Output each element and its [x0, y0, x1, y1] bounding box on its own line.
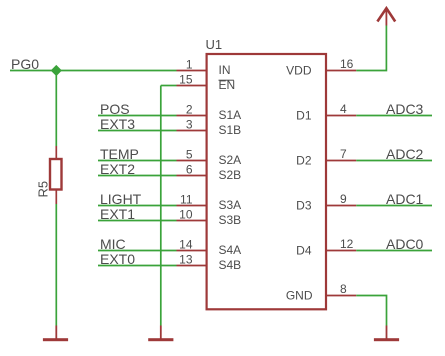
svg-text:D1: D1	[296, 109, 312, 123]
svg-text:POS: POS	[100, 101, 130, 117]
svg-text:ADC3: ADC3	[386, 101, 424, 117]
pin 9 D3 stub	[326, 205, 356, 207]
svg-text:S1A: S1A	[219, 108, 242, 122]
svg-text:6: 6	[186, 163, 193, 177]
svg-text:2: 2	[186, 103, 193, 117]
svg-text:14: 14	[179, 238, 193, 252]
svg-text:8: 8	[340, 282, 347, 296]
power VDD arrow head	[377, 8, 395, 21]
pin 6 S2B stub	[177, 175, 207, 177]
pin 7 D2 stub	[326, 160, 356, 162]
svg-text:ADC1: ADC1	[386, 191, 424, 207]
ground GND3	[386, 326, 388, 340]
wire GND pin to ground	[356, 296, 386, 326]
wire ADC1	[356, 205, 432, 207]
wire PG0 horizontal	[10, 70, 177, 72]
svg-text:MIC: MIC	[100, 236, 126, 252]
svg-text:5: 5	[186, 148, 193, 162]
svg-text:EXT2: EXT2	[100, 161, 135, 177]
wire MIC	[98, 250, 177, 252]
svg-text:U1: U1	[206, 37, 223, 52]
pin 4 D1 stub	[326, 115, 356, 117]
svg-text:11: 11	[180, 193, 193, 207]
op-amp U1 body	[207, 54, 326, 309]
svg-text:LIGHT: LIGHT	[100, 191, 142, 207]
wire EXT0	[98, 265, 177, 267]
svg-text:13: 13	[179, 253, 193, 267]
svg-text:ADC2: ADC2	[386, 146, 424, 162]
svg-text:ADC0: ADC0	[386, 236, 424, 252]
svg-text:15: 15	[179, 73, 193, 87]
wire EXT2	[98, 175, 177, 177]
svg-text:9: 9	[340, 192, 347, 206]
pin 8 GND stub	[326, 295, 356, 297]
svg-text:PG0: PG0	[11, 56, 39, 72]
pin 10 S3B stub	[177, 220, 207, 222]
ground GND2	[160, 326, 162, 340]
EN overline	[219, 79, 234, 81]
svg-text:TEMP: TEMP	[100, 146, 139, 162]
svg-text:S3B: S3B	[219, 213, 242, 227]
wire EXT1	[98, 220, 177, 222]
wire ADC3	[356, 115, 432, 117]
pin 2 S1A stub	[177, 115, 207, 117]
wire junction down to R5	[55, 71, 57, 147]
pin 12 D4 stub	[326, 250, 356, 252]
svg-text:7: 7	[340, 147, 347, 161]
pin 3 S1B stub	[177, 130, 207, 132]
resistor R5 body	[50, 159, 62, 190]
pin 11 S3A stub	[177, 205, 207, 207]
pin 13 S4B stub	[177, 265, 207, 267]
svg-text:S4A: S4A	[219, 243, 242, 257]
svg-text:10: 10	[179, 208, 193, 222]
svg-text:EXT0: EXT0	[100, 251, 135, 267]
power VDD arrow stem	[385, 9, 387, 26]
pin 15 EN stub	[177, 85, 207, 87]
svg-text:GND: GND	[286, 289, 313, 303]
svg-text:S1B: S1B	[219, 123, 242, 137]
svg-text:VDD: VDD	[286, 64, 312, 78]
svg-text:EXT3: EXT3	[100, 116, 135, 132]
wire ADC0	[356, 250, 432, 252]
svg-text:3: 3	[186, 118, 193, 132]
svg-text:1: 1	[186, 58, 193, 72]
svg-text:S2B: S2B	[219, 168, 242, 182]
wire LIGHT	[98, 205, 177, 207]
svg-text:S3A: S3A	[219, 198, 242, 212]
wire EXT3	[98, 130, 177, 132]
wire EN vertical down	[160, 86, 162, 326]
svg-text:12: 12	[340, 237, 354, 251]
svg-text:D3: D3	[296, 199, 312, 213]
pin 1 IN stub	[177, 70, 207, 72]
svg-text:16: 16	[340, 57, 354, 71]
node junction PG0/R5	[51, 66, 61, 76]
ground GND1	[55, 326, 57, 340]
svg-text:D4: D4	[296, 244, 312, 258]
wire R5 to ground	[55, 204, 57, 326]
svg-text:S2A: S2A	[219, 153, 242, 167]
wire TEMP	[98, 160, 177, 162]
svg-text:4: 4	[340, 102, 347, 116]
wire ADC2	[356, 160, 432, 162]
pin 5 S2A stub	[177, 160, 207, 162]
resistor R5 pin bottom	[55, 190, 57, 204]
pin 16 VDD stub	[326, 70, 356, 72]
svg-text:IN: IN	[219, 63, 231, 77]
svg-text:R5: R5	[36, 181, 51, 198]
resistor R5 pin top	[55, 146, 57, 159]
wire VDD to power arrow	[356, 26, 386, 71]
pin 14 S4A stub	[177, 250, 207, 252]
wire POS	[98, 115, 177, 117]
svg-text:D2: D2	[296, 154, 312, 168]
svg-text:EXT1: EXT1	[100, 206, 135, 222]
wire EN to vertical	[161, 85, 177, 87]
svg-text:S4B: S4B	[219, 258, 242, 272]
